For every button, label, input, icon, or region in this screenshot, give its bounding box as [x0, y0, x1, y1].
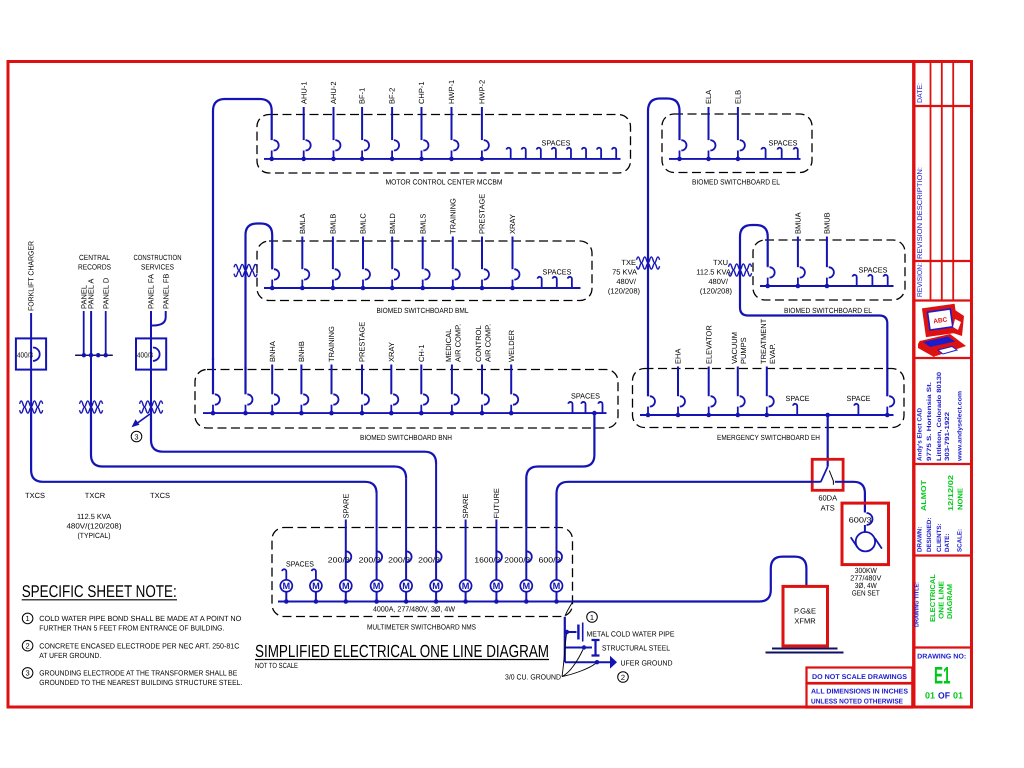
- svg-text:480V/: 480V/: [708, 277, 729, 286]
- svg-text:DIAGRAM: DIAGRAM: [947, 584, 954, 619]
- svg-text:PUMPS: PUMPS: [739, 337, 748, 364]
- svg-text:XRAY: XRAY: [508, 214, 517, 234]
- svg-text:PRESTAGE: PRESTAGE: [358, 322, 367, 362]
- breaker BNH CH-1: [417, 344, 428, 415]
- label BML: [377, 306, 469, 315]
- svg-text:Andy's Elect CAD: Andy's Elect CAD: [917, 407, 924, 461]
- svg-text:TXCR: TXCR: [85, 491, 106, 500]
- svg-text:SPARE: SPARE: [461, 494, 470, 519]
- feeder wire EL-lower riser (TXU) to EH: [740, 225, 887, 396]
- switchboard EL-lower enclosure: [753, 240, 905, 300]
- label NMS: [367, 623, 476, 632]
- breaker BNH TRAINING: [327, 326, 338, 415]
- svg-text:BNHB: BNHB: [297, 341, 306, 362]
- breaker box 400/3 forklift: [16, 338, 46, 414]
- ground branch structural steel: [565, 640, 670, 656]
- svg-text:FUTURE: FUTURE: [492, 488, 501, 518]
- sheet note 1: [22, 613, 241, 632]
- svg-text:FORKLIFT CHARGER: FORKLIFT CHARGER: [27, 240, 36, 311]
- svg-text:www.andyselect.com: www.andyselect.com: [956, 390, 963, 462]
- svg-text:SPACES: SPACES: [543, 268, 572, 277]
- svg-text:BIOMED SWITCHBOARD BNH: BIOMED SWITCHBOARD BNH: [360, 433, 452, 442]
- main drawing title: [255, 641, 549, 670]
- breaker EH ELEVATOR: [704, 325, 715, 418]
- svg-text:TRAINING: TRAINING: [448, 198, 457, 234]
- NMS breaker 600/3: [539, 527, 563, 604]
- svg-text:SPACES: SPACES: [571, 391, 600, 400]
- NMS breaker 2000/3: [504, 527, 532, 604]
- svg-text:BMLD: BMLD: [388, 213, 397, 234]
- svg-text:M: M: [402, 581, 410, 591]
- feeder riser BML-to-BNH: [244, 367, 246, 394]
- svg-text:BF-2: BF-2: [388, 88, 397, 104]
- breaker EL-lower main: [765, 267, 774, 288]
- breaker BNH MEDICAL: [444, 324, 462, 416]
- transformer TXCS forklift: [20, 401, 43, 413]
- BML spare space stubs: [538, 268, 572, 289]
- svg-text:SPACES: SPACES: [769, 139, 798, 148]
- svg-text:BF-1: BF-1: [358, 88, 367, 104]
- svg-text:ATS: ATS: [821, 504, 835, 513]
- label 112.5 KVA typical: [67, 512, 123, 540]
- svg-text:METAL COLD WATER PIPE: METAL COLD WATER PIPE: [587, 630, 675, 639]
- feeder riser MCCBM-to-BNH: [212, 358, 214, 394]
- breaker BML XRAY: [508, 214, 519, 290]
- svg-text:TRAINING: TRAINING: [327, 326, 336, 362]
- svg-text:SPARE: SPARE: [341, 494, 350, 519]
- svg-text:480V/: 480V/: [616, 277, 637, 286]
- ground branch ufer ground: [565, 656, 673, 669]
- svg-text:AIR COMP.: AIR COMP.: [453, 324, 462, 362]
- svg-text:M: M: [312, 581, 320, 591]
- breaker BML BMLC: [359, 213, 370, 291]
- breaker BNH PRESTAGE: [358, 322, 369, 416]
- wire NMS-to-utility transformer: [573, 557, 807, 602]
- switchboard NMS enclosure: [272, 528, 573, 617]
- breaker MCCBM AHU-2: [329, 81, 340, 161]
- label TXCS construction: [150, 491, 170, 500]
- breaker MCCBM main: [269, 140, 278, 161]
- circled note 2 at ground: [618, 672, 629, 683]
- label TXE: [608, 258, 641, 296]
- svg-text:PANEL FB: PANEL FB: [161, 274, 170, 309]
- svg-text:HWP-1: HWP-1: [447, 80, 456, 104]
- svg-text:M: M: [553, 581, 561, 591]
- svg-text:RECORDS: RECORDS: [78, 263, 111, 272]
- svg-text:1: 1: [590, 613, 594, 622]
- svg-text:XFMR: XFMR: [794, 617, 816, 626]
- svg-text:SPACES: SPACES: [542, 139, 571, 148]
- svg-text:GEN SET: GEN SET: [852, 589, 880, 598]
- svg-text:1: 1: [26, 614, 30, 623]
- transformer TXU: [729, 264, 752, 276]
- central records heading: [78, 253, 111, 272]
- svg-text:SPACES: SPACES: [859, 266, 888, 275]
- svg-text:EMERGENCY SWITCHBOARD EH: EMERGENCY SWITCHBOARD EH: [717, 433, 820, 442]
- breaker BML BMLA: [298, 214, 309, 291]
- label TXU: [696, 258, 732, 296]
- bus BNH: [203, 412, 607, 414]
- sheet note 3: [22, 668, 242, 687]
- svg-text:UNLESS NOTED OTHERWISE: UNLESS NOTED OTHERWISE: [811, 699, 903, 706]
- sheet border frame: [8, 62, 972, 708]
- breaker EL-lower BMUA: [794, 212, 805, 288]
- label 3/0 CU ground with leaders: [505, 634, 596, 682]
- svg-text:112.5 KVA: 112.5 KVA: [77, 512, 111, 521]
- svg-text:CHP-1: CHP-1: [417, 81, 426, 104]
- bus BML: [264, 287, 581, 289]
- svg-text:REVISION:: REVISION:: [917, 263, 924, 297]
- do-not-scale note boxes: [807, 668, 913, 708]
- svg-text:480V/(120/208): 480V/(120/208): [67, 522, 123, 531]
- svg-text:BNHA: BNHA: [268, 341, 277, 362]
- EL-lower spare space stubs: [853, 266, 888, 287]
- breaker BML PRESTAGE: [478, 194, 489, 291]
- svg-text:PANEL A: PANEL A: [87, 279, 96, 309]
- bus EL-lower: [760, 285, 894, 287]
- svg-text:BMLA: BMLA: [298, 214, 307, 234]
- svg-text:(120/208): (120/208): [608, 287, 641, 296]
- construction services heading: [134, 253, 182, 272]
- svg-text:BIOMED SWITCHBOARD EL: BIOMED SWITCHBOARD EL: [692, 178, 780, 187]
- breaker EL-upper ELB: [734, 90, 745, 161]
- generator G1: [856, 532, 875, 551]
- panel feeder PANEL FB: [151, 274, 170, 326]
- svg-text:ELECTRICAL: ELECTRICAL: [930, 573, 937, 622]
- svg-text:CONSTRUCTION: CONSTRUCTION: [134, 253, 182, 262]
- svg-text:DRAWING TITLE:: DRAWING TITLE:: [914, 582, 921, 627]
- label TXCS forklift: [25, 491, 45, 500]
- label MCCBM: [386, 178, 503, 187]
- svg-text:3: 3: [134, 432, 138, 441]
- svg-text:TXCS: TXCS: [25, 491, 45, 500]
- svg-text:DRAWN:: DRAWN:: [917, 527, 924, 552]
- svg-text:AHU-2: AHU-2: [329, 81, 338, 104]
- BNH spare space stubs: [568, 391, 602, 413]
- svg-text:CH-1: CH-1: [417, 344, 426, 362]
- label EL-upper: [692, 178, 780, 187]
- svg-text:CONCRETE ENCASED ELECTRODE PER: CONCRETE ENCASED ELECTRODE PER NEC ART. …: [39, 642, 240, 651]
- svg-text:AHU-1: AHU-1: [299, 81, 308, 104]
- feeder wire EL-upper riser (TXE): [648, 99, 680, 397]
- svg-text:XRAY: XRAY: [387, 342, 396, 362]
- breaker EH standby feeder: [885, 396, 894, 417]
- label TXCR: [85, 491, 106, 500]
- generator 600/3 breaker box: [842, 503, 889, 564]
- svg-text:M: M: [342, 581, 350, 591]
- svg-text:BIOMED SWITCHBOARD EL: BIOMED SWITCHBOARD EL: [784, 306, 872, 315]
- svg-text:MULTIMETER SWITCHBOARD NMS: MULTIMETER SWITCHBOARD NMS: [367, 623, 476, 632]
- svg-text:FURTHER THAN 5 FEET FROM ENTRA: FURTHER THAN 5 FEET FROM ENTRANCE OF BUI…: [39, 624, 224, 633]
- breaker BNH feeder 1: [211, 394, 220, 415]
- bus NMS: [278, 601, 573, 603]
- svg-text:400/3: 400/3: [17, 351, 33, 360]
- feeder wire BML riser with transformer: [234, 224, 272, 370]
- breaker EH TREATMENT EVAP: [759, 318, 777, 417]
- svg-text:600/3: 600/3: [849, 516, 872, 525]
- transformer pad: [766, 649, 844, 653]
- panel feeder PANEL D: [101, 277, 110, 355]
- drawing title block: [914, 573, 955, 627]
- svg-text:(TYPICAL): (TYPICAL): [78, 531, 111, 540]
- svg-text:BMUA: BMUA: [794, 212, 803, 234]
- address block: [917, 371, 964, 462]
- svg-text:PRESTAGE: PRESTAGE: [478, 194, 487, 234]
- bus MCCBM: [264, 158, 621, 160]
- svg-text:TXU: TXU: [713, 258, 728, 267]
- svg-text:AIR COMP.: AIR COMP.: [483, 324, 492, 362]
- label EH: [717, 433, 820, 442]
- NMS breaker 200/3 c: [418, 464, 442, 604]
- panel feeder PANEL: [79, 285, 88, 355]
- svg-text:M: M: [462, 581, 470, 591]
- breaker BML BMLS: [418, 214, 429, 291]
- breaker BNH BNHA: [268, 341, 279, 415]
- bus EL-upper: [669, 158, 801, 160]
- drawn-designed-clients block: [917, 475, 965, 552]
- switchboard EH enclosure: [633, 369, 905, 428]
- switchboard BML enclosure: [257, 241, 592, 301]
- svg-text:3/0 CU. GROUND: 3/0 CU. GROUND: [505, 673, 562, 682]
- svg-text:M: M: [493, 581, 501, 591]
- NMS spaces text: [286, 560, 314, 569]
- EL-upper spare space stubs: [761, 139, 797, 159]
- svg-text:303-791-1922: 303-791-1922: [944, 411, 951, 461]
- svg-text:NONE: NONE: [957, 488, 964, 510]
- svg-text:MOTOR CONTROL CENTER MCCBM: MOTOR CONTROL CENTER MCCBM: [386, 178, 503, 187]
- svg-text:P.G&E: P.G&E: [794, 607, 816, 616]
- breaker BNH feeder 2: [243, 394, 252, 415]
- svg-text:ELB: ELB: [734, 90, 743, 104]
- breaker BNH WELDER: [507, 329, 518, 415]
- drawing number block: [917, 654, 966, 701]
- breaker EH main: [646, 396, 655, 417]
- specific sheet note heading: [22, 582, 177, 601]
- svg-text:TREATMENT: TREATMENT: [759, 318, 768, 364]
- svg-text:GROUNDING ELECTRODE AT THE TRA: GROUNDING ELECTRODE AT THE TRANSFORMER S…: [39, 669, 237, 678]
- breaker EH VACUUM PUMPS: [730, 332, 748, 417]
- NMS breaker 200/3 spare: [328, 494, 352, 604]
- breaker MCCBM CHP-1: [417, 81, 428, 161]
- ground branch metal cold water pipe: [565, 623, 675, 642]
- breaker MCCBM BF-1: [358, 88, 369, 161]
- breaker EL-upper main: [677, 140, 686, 161]
- wire TXCS-to-NMS: [31, 413, 377, 494]
- breaker box 400/3 construction: [136, 338, 166, 414]
- svg-text:UFER GROUND: UFER GROUND: [621, 659, 674, 668]
- svg-text:TXCS: TXCS: [150, 491, 170, 500]
- breaker MCCBM BF-2: [388, 88, 399, 161]
- breaker EL-upper ELA: [704, 90, 715, 161]
- breaker BML BMLB: [329, 214, 340, 291]
- svg-text:REVISION DESCRIPTION:: REVISION DESCRIPTION:: [917, 167, 924, 259]
- svg-text:DRAWING NO:: DRAWING NO:: [917, 654, 966, 661]
- breaker BNH BNHB: [297, 341, 308, 415]
- svg-text:HWP-2: HWP-2: [478, 80, 487, 104]
- ground arrow note 3: [131, 414, 150, 442]
- svg-text:60DA: 60DA: [818, 494, 837, 503]
- svg-text:OF: OF: [938, 690, 950, 700]
- wire TXCR-to-NMS: [91, 413, 406, 478]
- wire ATS-to-generator: [843, 482, 865, 513]
- MCCBM spare space stubs: [507, 139, 617, 159]
- svg-text:(120/208): (120/208): [700, 287, 733, 296]
- NMS space meter 1: [280, 569, 292, 604]
- NMS breaker 200/3 a: [359, 494, 383, 604]
- svg-text:SPACE: SPACE: [786, 394, 810, 403]
- bus EH: [640, 414, 894, 416]
- svg-text:VACUUM: VACUUM: [730, 332, 739, 364]
- svg-text:CLIENTS:: CLIENTS:: [936, 523, 943, 552]
- ground riser from NMS: [565, 602, 573, 662]
- svg-text:CENTRAL: CENTRAL: [79, 253, 110, 262]
- svg-text:STRUCTURAL STEEL: STRUCTURAL STEEL: [602, 644, 670, 653]
- svg-text:SPACES: SPACES: [286, 560, 314, 569]
- breaker EH EHA: [674, 349, 685, 418]
- bus rating label NMS: [373, 605, 456, 614]
- svg-text:ELA: ELA: [704, 90, 713, 104]
- svg-text:12/12/02: 12/12/02: [947, 475, 955, 511]
- switchboard MCCBM enclosure: [257, 115, 631, 174]
- ATS switch 60DA: [812, 459, 843, 512]
- svg-text:BMUB: BMUB: [823, 212, 832, 234]
- svg-text:75 KVA: 75 KVA: [612, 268, 637, 277]
- svg-text:SIMPLIFIED ELECTRICAL ONE LINE: SIMPLIFIED ELECTRICAL ONE LINE DIAGRAM: [255, 641, 549, 661]
- svg-text:SPECIFIC SHEET NOTE:: SPECIFIC SHEET NOTE:: [22, 582, 177, 601]
- svg-text:TXE: TXE: [621, 258, 636, 267]
- panel feeder PANEL A: [87, 279, 96, 356]
- svg-text:01: 01: [925, 690, 935, 700]
- transformer TXCS construction: [140, 401, 163, 413]
- label BNH: [360, 433, 452, 442]
- svg-text:EVAP.: EVAP.: [768, 343, 777, 364]
- feeder wire MCCBM from riser: [213, 99, 272, 360]
- breaker BML BMLD: [388, 213, 399, 291]
- svg-text:BMLB: BMLB: [329, 214, 338, 234]
- svg-text:AT UFER GROUND.: AT UFER GROUND.: [39, 651, 101, 660]
- label EL-lower: [784, 306, 872, 315]
- svg-text:NOT TO SCALE: NOT TO SCALE: [255, 661, 298, 670]
- svg-text:PANEL D: PANEL D: [101, 277, 110, 309]
- svg-text:DATE:: DATE:: [917, 83, 924, 103]
- svg-text:EHA: EHA: [674, 349, 683, 364]
- svg-text:BMLS: BMLS: [418, 214, 427, 234]
- svg-text:CONTROL: CONTROL: [474, 325, 483, 362]
- circled note 1 at ground: [587, 612, 598, 623]
- svg-text:ALMOT: ALMOT: [921, 479, 928, 511]
- svg-text:ONE LINE: ONE LINE: [939, 581, 946, 619]
- utility transformer P.G&E XFMR: [783, 586, 828, 646]
- svg-text:ALL DIMENSIONS IN INCHES: ALL DIMENSIONS IN INCHES: [811, 689, 908, 696]
- svg-text:PANEL FA: PANEL FA: [147, 274, 156, 309]
- svg-text:DO NOT SCALE DRAWINGS: DO NOT SCALE DRAWINGS: [812, 674, 907, 681]
- svg-text:WELDER: WELDER: [507, 329, 516, 362]
- breaker BML TRAINING: [448, 198, 459, 290]
- transformer TXCR: [80, 401, 103, 413]
- svg-text:E1: E1: [934, 662, 951, 689]
- breaker BML main: [270, 269, 279, 290]
- svg-text:M: M: [522, 581, 530, 591]
- svg-text:2: 2: [621, 673, 625, 682]
- breaker MCCBM HWP-2: [478, 80, 489, 161]
- svg-text:BIOMED SWITCHBOARD BML: BIOMED SWITCHBOARD BML: [377, 306, 469, 315]
- svg-text:DESIGNED:: DESIGNED:: [926, 518, 933, 552]
- panel feeder PANEL FA: [147, 274, 156, 338]
- breaker BNH XRAY: [387, 342, 398, 415]
- wire EH-to-ATS: [825, 413, 830, 467]
- svg-text:01: 01: [953, 690, 963, 700]
- NMS spare meter: [460, 494, 472, 604]
- label gen set: [850, 566, 881, 598]
- svg-text:3: 3: [26, 669, 30, 678]
- svg-text:GROUNDED TO THE NEAREST BUILDI: GROUNDED TO THE NEAREST BUILDING STRUCTU…: [39, 678, 242, 687]
- svg-text:SPACE: SPACE: [847, 394, 871, 403]
- sheet note 2: [22, 640, 240, 660]
- central records tie bar: [75, 353, 113, 357]
- EH space stub 2: [847, 394, 871, 415]
- svg-text:SCALE:: SCALE:: [956, 529, 963, 552]
- EH space stub 1: [786, 394, 810, 415]
- svg-text:400/3: 400/3: [137, 351, 153, 360]
- svg-text:2: 2: [26, 642, 30, 651]
- wire TXCS-construction-to-NMS: [151, 413, 436, 464]
- svg-text:COLD WATER PIPE BOND SHALL BE: COLD WATER PIPE BOND SHALL BE MADE AT A …: [39, 614, 241, 623]
- svg-text:M: M: [432, 581, 440, 591]
- breaker MCCBM HWP-1: [447, 80, 458, 161]
- svg-text:M: M: [373, 581, 381, 591]
- forklift charger feeder: [27, 240, 36, 338]
- svg-text:4000A, 277/480V, 3Ø, 4W: 4000A, 277/480V, 3Ø, 4W: [373, 605, 456, 614]
- wire BNH-to-NMS 2000/3: [526, 411, 596, 527]
- breaker MCCBM AHU-1: [299, 81, 310, 161]
- computer logo: [918, 304, 966, 357]
- svg-text:DATE:: DATE:: [944, 534, 951, 552]
- svg-text:112.5 KVA: 112.5 KVA: [696, 268, 731, 277]
- switchboard BNH enclosure: [195, 370, 618, 429]
- svg-text:ELEVATOR: ELEVATOR: [704, 325, 713, 364]
- breaker BNH CONTROL: [474, 324, 492, 416]
- svg-text:BMLC: BMLC: [359, 213, 368, 234]
- wire ATS-to-NMS 600/3: [557, 482, 813, 527]
- svg-text:Littleton, Colorado 80130: Littleton, Colorado 80130: [936, 371, 943, 461]
- switchboard EL-upper enclosure: [662, 114, 812, 173]
- svg-text:MEDICAL: MEDICAL: [444, 329, 453, 362]
- NMS breaker 200/3 b: [388, 478, 412, 604]
- svg-text:SERVICES: SERVICES: [141, 263, 174, 272]
- breaker EL-lower BMUB: [823, 212, 834, 288]
- svg-text:M: M: [282, 581, 290, 591]
- NMS space meter 2: [310, 569, 322, 604]
- svg-text:9775 S. Hortensia St.: 9775 S. Hortensia St.: [926, 382, 933, 461]
- transformer TXE: [637, 257, 660, 269]
- NMS breaker 1600/3 future: [474, 488, 502, 604]
- wire central records to transformer: [90, 355, 92, 414]
